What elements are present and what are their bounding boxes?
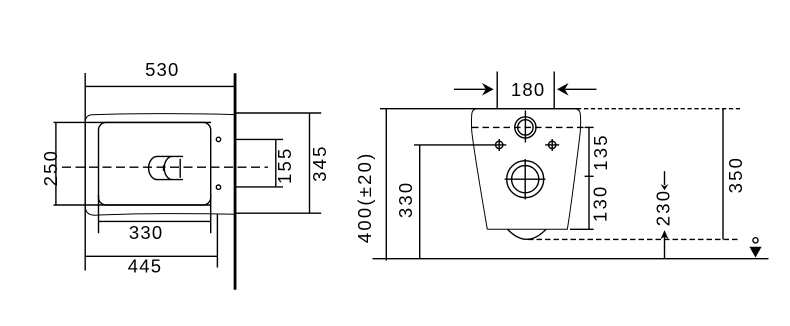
dim 400 line — [385, 109, 387, 261]
floor line — [373, 258, 769, 260]
rim bottom dashed line — [528, 238, 739, 240]
wall line — [234, 73, 237, 289]
dim 180 arrow right — [557, 83, 597, 96]
dim 250 line — [55, 122, 57, 205]
sump outline — [149, 156, 183, 179]
fixing hole bottom (plan) — [216, 185, 220, 189]
dim 155 line — [275, 139, 277, 187]
dim 345 extension top — [235, 112, 321, 114]
dim 155 extension top — [235, 138, 283, 140]
outlet circle inner — [512, 166, 539, 193]
dim 250 extension bottom — [54, 204, 212, 206]
dim 180 extension left — [496, 72, 498, 109]
inlet circle inner — [518, 120, 533, 135]
outlet bump — [508, 229, 546, 239]
pan inner rim — [99, 122, 211, 205]
svg-text:330: 330 — [129, 222, 163, 243]
floor datum circle — [753, 238, 758, 243]
dim 330 extension left — [98, 195, 100, 233]
fixing hole left (rear) — [496, 141, 503, 148]
fixing hole right cross horizontal — [545, 144, 559, 146]
dim 530 line — [85, 85, 235, 87]
svg-text:180: 180 — [511, 79, 545, 100]
dim 345 extension bottom — [235, 212, 321, 214]
outlet circle outer — [507, 161, 544, 198]
fixing hole right (rear) — [549, 141, 556, 148]
dim 330 line (rear) — [419, 145, 421, 259]
pan outer outline — [85, 114, 235, 216]
sump center tick — [163, 165, 165, 171]
fixing hole right cross vertical — [551, 139, 553, 151]
dim 130 line — [588, 176, 590, 229]
dim 530 extension line — [84, 73, 86, 271]
dim 330 extension right — [210, 195, 212, 233]
dim 445 line — [85, 255, 217, 257]
bowl outline (rear) — [471, 109, 580, 230]
fixing hole top (plan) — [216, 137, 220, 141]
dim 330 line (plan) — [99, 220, 211, 222]
fixing hole left cross vertical — [498, 139, 500, 151]
top level line dashed — [584, 108, 740, 110]
sump inner arc — [164, 157, 171, 180]
sump vertical line — [179, 159, 181, 178]
inlet center vertical — [524, 111, 526, 143]
svg-text:530: 530 — [145, 59, 179, 80]
inlet center dashed horizontal — [472, 126, 589, 128]
svg-text:130: 130 — [590, 184, 611, 221]
dim 135/130 tick middle — [585, 175, 594, 177]
svg-text:345: 345 — [309, 144, 330, 181]
outlet cross vertical — [524, 159, 526, 199]
dim 135 line — [588, 127, 590, 176]
dim 180 extension right — [553, 72, 555, 109]
dim 345 line — [309, 113, 311, 213]
centerline dashed — [62, 166, 268, 168]
dim 180 arrow left — [454, 83, 494, 96]
dim 350 line — [722, 109, 724, 240]
dim 135 tick top — [585, 126, 594, 128]
dim 250 extension top — [54, 121, 212, 123]
dim 445 extension right — [216, 215, 218, 268]
inlet circle outer — [515, 117, 536, 138]
svg-text:155: 155 — [274, 146, 295, 183]
dim 155 extension bottom — [235, 186, 283, 188]
svg-text:250: 250 — [40, 149, 61, 186]
svg-text:445: 445 — [128, 255, 162, 276]
svg-text:230: 230 — [652, 189, 673, 226]
svg-text:400(±20): 400(±20) — [354, 152, 375, 244]
outlet cross horizontal — [505, 178, 546, 180]
svg-text:350: 350 — [725, 156, 746, 193]
svg-text:330: 330 — [395, 181, 416, 218]
top level line solid — [380, 108, 581, 110]
dim 330 extension (rear) — [414, 144, 506, 146]
svg-text:135: 135 — [590, 133, 611, 170]
dim 230 arrow up — [661, 230, 669, 259]
floor datum triangle — [749, 247, 761, 258]
dim 130 extension bottom — [570, 228, 594, 230]
dim 230 arrow down — [661, 171, 669, 190]
